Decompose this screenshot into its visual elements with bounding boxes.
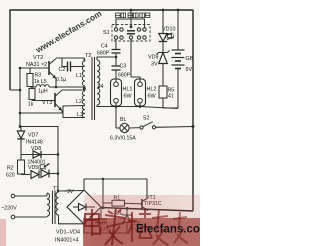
wire left bias rail bbox=[19, 68, 21, 127]
svg-text:41: 41 bbox=[168, 94, 174, 100]
svg-text:VT2: VT2 bbox=[33, 55, 43, 61]
wire VT2 base bbox=[20, 67, 49, 69]
switch S1 bbox=[103, 25, 150, 42]
winding L4 bbox=[97, 60, 100, 105]
svg-text:~220V: ~220V bbox=[1, 206, 17, 212]
diode VD7 bbox=[17, 127, 43, 155]
resistor R5 bbox=[159, 86, 178, 108]
svg-text:GB: GB bbox=[186, 56, 194, 62]
wire S1 wiper down to HL2 bbox=[131, 39, 140, 79]
svg-text:680P: 680P bbox=[97, 51, 110, 57]
zener VD6 bbox=[122, 207, 141, 234]
transformer T2 bbox=[63, 53, 178, 120]
svg-text:C4: C4 bbox=[101, 44, 108, 50]
switch S2 bbox=[129, 116, 194, 130]
lamp HL2 bbox=[135, 79, 157, 107]
svg-text:6W: 6W bbox=[148, 94, 157, 100]
wire VT3 collector bbox=[62, 89, 84, 91]
watermark left edge strip bbox=[0, 219, 6, 246]
svg-text:3V: 3V bbox=[151, 62, 158, 68]
svg-text:HL2: HL2 bbox=[147, 87, 157, 93]
svg-text:680P: 680P bbox=[118, 73, 131, 79]
node wire y87 bbox=[30, 86, 36, 88]
bridge rectifier VD1-VD4 bbox=[55, 189, 101, 244]
node link junction bbox=[19, 89, 22, 92]
terminal ~220V bottom bbox=[11, 215, 15, 219]
wire L4 top lead bbox=[97, 57, 116, 60]
terminal ~220V top bbox=[11, 194, 15, 198]
wire mains bottom bbox=[15, 216, 47, 218]
resistor R2 bbox=[6, 155, 25, 179]
wire VD8 row bbox=[21, 154, 58, 156]
wire L3 leads bbox=[63, 106, 85, 118]
transistor VT1 bbox=[142, 179, 162, 211]
node left rail to VD7 bbox=[19, 125, 22, 128]
svg-text:−9V: −9V bbox=[64, 189, 74, 195]
zener VD9 bbox=[148, 42, 170, 87]
node lamp bottoms bbox=[115, 105, 118, 108]
svg-text:R3: R3 bbox=[35, 73, 42, 79]
svg-text:VD7: VD7 bbox=[28, 133, 38, 139]
svg-text:0.1µ: 0.1µ bbox=[56, 77, 66, 83]
transformer T1 bbox=[47, 186, 84, 224]
wire L4 bottom lead bbox=[97, 105, 178, 109]
svg-text:IN4148: IN4148 bbox=[26, 140, 43, 146]
T2 core bbox=[91, 57, 93, 120]
resistor R4 bbox=[28, 87, 35, 108]
capacitor C4 bbox=[97, 39, 121, 58]
wire VT3 base bbox=[32, 100, 55, 102]
svg-text:L4: L4 bbox=[98, 84, 104, 90]
wire mains top bbox=[15, 195, 47, 197]
winding L1 bbox=[82, 61, 85, 86]
svg-text:1k L5: 1k L5 bbox=[34, 79, 47, 85]
svg-text:VD10: VD10 bbox=[162, 27, 176, 33]
svg-text:NA31 ×2: NA31 ×2 bbox=[26, 62, 47, 68]
watermark big char 1 bbox=[85, 209, 100, 236]
winding L2 bbox=[82, 91, 85, 104]
inductor L5 bbox=[36, 85, 49, 95]
svg-text:VD5(: VD5( bbox=[28, 165, 40, 171]
svg-text:VD9: VD9 bbox=[148, 55, 159, 61]
transistor VT3 bbox=[42, 90, 62, 111]
svg-text:C2: C2 bbox=[59, 67, 66, 73]
wire x10 to x20 link bbox=[10, 89, 20, 91]
LED VD5 bbox=[21, 164, 59, 179]
svg-text:BL: BL bbox=[120, 117, 126, 123]
svg-text:6V: 6V bbox=[186, 67, 193, 73]
svg-text:Elecfans.com: Elecfans.com bbox=[136, 224, 200, 236]
lamp BL bbox=[110, 107, 136, 142]
winding L3 bbox=[82, 106, 85, 118]
watermark red band bbox=[83, 218, 200, 246]
svg-text:HL1: HL1 bbox=[123, 87, 133, 93]
wire VT2 emitter drop bbox=[55, 79, 57, 88]
capacitor C2 bbox=[56, 58, 84, 83]
svg-text:L1: L1 bbox=[76, 73, 82, 79]
watermark big char 4 bbox=[152, 209, 168, 245]
svg-text:VT3: VT3 bbox=[42, 100, 52, 106]
wire S1 stem to rail bbox=[130, 10, 132, 25]
wire bridge top to collector rail bbox=[83, 179, 85, 190]
capacitor C3 bbox=[112, 57, 131, 79]
svg-text:6.3V/0.15A: 6.3V/0.15A bbox=[110, 136, 136, 142]
svg-text:S1: S1 bbox=[103, 30, 110, 36]
svg-text:): ) bbox=[45, 165, 47, 171]
label S1 positions bbox=[116, 13, 150, 18]
resistor R1 bbox=[103, 196, 142, 217]
wire VT3 emitter bbox=[20, 111, 62, 114]
LED VD10 bbox=[159, 9, 176, 42]
node T2 tap bbox=[84, 86, 85, 89]
svg-text:S2: S2 bbox=[143, 116, 149, 122]
wire bottom rail bbox=[101, 208, 193, 212]
transistor VT2 bbox=[26, 55, 56, 79]
svg-text:C3: C3 bbox=[120, 64, 127, 70]
svg-text:1µH: 1µH bbox=[38, 89, 48, 95]
svg-text:6W: 6W bbox=[124, 94, 133, 100]
wire VT1 collector rail bbox=[84, 178, 147, 180]
svg-text:1k: 1k bbox=[28, 102, 34, 108]
watermark big char 2 bbox=[105, 208, 125, 245]
diode VD8 bbox=[28, 146, 46, 166]
svg-text:T2: T2 bbox=[85, 53, 92, 59]
resistor R3 bbox=[27, 68, 47, 87]
svg-text:VD1–VD4: VD1–VD4 bbox=[56, 230, 80, 236]
wire charge link bbox=[20, 127, 58, 192]
wire right rail bbox=[192, 10, 194, 211]
wire S1 top links bbox=[116, 19, 145, 28]
watermark big char 5 bbox=[173, 212, 188, 243]
svg-text:620: 620 bbox=[6, 173, 15, 179]
svg-text:R2: R2 bbox=[7, 166, 14, 172]
lamp HL1 bbox=[111, 79, 133, 107]
svg-text:IN4001×4: IN4001×4 bbox=[55, 238, 79, 244]
wire VT2 collector top bbox=[56, 58, 84, 61]
wire negative return rail bbox=[84, 224, 127, 233]
capacitor C1 bbox=[89, 208, 111, 233]
watermark big char 3 bbox=[128, 209, 152, 242]
svg-text:L2: L2 bbox=[76, 99, 82, 105]
wire plus drop bbox=[102, 179, 104, 208]
wire top supply rail bbox=[10, 10, 193, 90]
battery GB bbox=[172, 9, 194, 109]
svg-text:VD8: VD8 bbox=[31, 146, 41, 152]
